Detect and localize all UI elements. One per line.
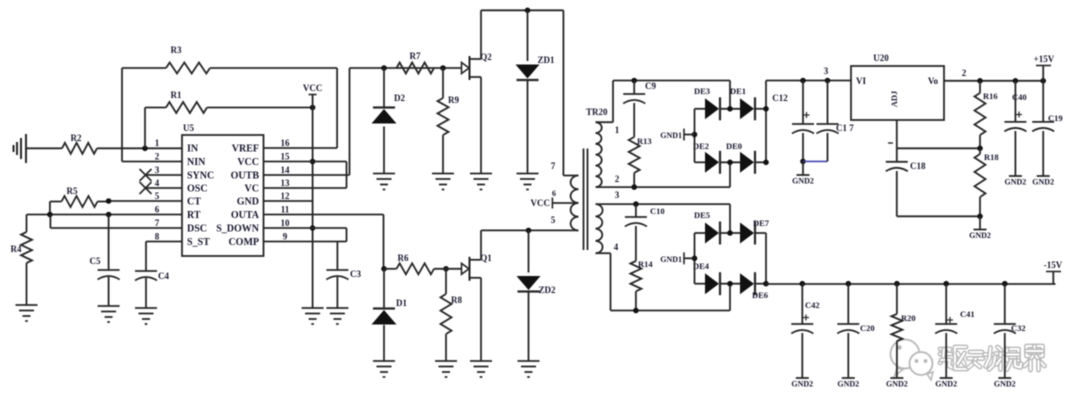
svg-text:DE1: DE1 bbox=[730, 86, 746, 96]
svg-text:8: 8 bbox=[155, 232, 160, 242]
svg-text:R4: R4 bbox=[11, 244, 22, 254]
capacitor C9 bbox=[623, 81, 656, 104]
transistor Q1 bbox=[462, 253, 493, 281]
svg-text:D1: D1 bbox=[396, 298, 407, 308]
resistor R8 bbox=[441, 269, 463, 361]
wire pin16 VREF bbox=[264, 147, 338, 149]
node junction rect out bottom bbox=[763, 160, 769, 166]
svg-text:4: 4 bbox=[155, 178, 160, 188]
svg-text:C42: C42 bbox=[805, 300, 820, 310]
resistor R13 bbox=[629, 103, 652, 187]
IC U5 PWM controller (SG3525) bbox=[155, 123, 290, 256]
svg-text:S_DOWN: S_DOWN bbox=[216, 223, 260, 234]
power symbol -15V bbox=[1044, 260, 1063, 284]
wire ground to R2 bbox=[26, 147, 62, 149]
svg-text:7: 7 bbox=[155, 218, 160, 228]
node junction DE3/DE1 bbox=[727, 106, 733, 112]
svg-text:R8: R8 bbox=[451, 295, 462, 305]
diode DE0 bbox=[726, 141, 755, 174]
capacitor C12 (electrolytic) bbox=[772, 81, 814, 162]
node junction GND1 tap top bbox=[692, 132, 698, 138]
svg-text:C12: C12 bbox=[772, 93, 788, 103]
svg-text:C5: C5 bbox=[90, 256, 101, 266]
node junction C10 top bbox=[633, 201, 639, 207]
ground under C5 bbox=[98, 306, 120, 322]
diode DE3 bbox=[694, 86, 720, 120]
capacitor C17 bbox=[817, 81, 855, 162]
wire pin12 GND stub bbox=[264, 200, 313, 202]
svg-text:DE5: DE5 bbox=[694, 210, 710, 220]
svg-text:Vo: Vo bbox=[928, 76, 939, 86]
node junction C17 / node 3 bbox=[824, 66, 831, 83]
wire VCC rail vertical bbox=[312, 95, 314, 309]
transformer pin6 VCC tap bbox=[531, 189, 575, 209]
wire -15V rail bbox=[766, 283, 1056, 285]
resistor R9 bbox=[438, 68, 460, 174]
wire OUTB rail to Q2 base bbox=[350, 67, 462, 69]
svg-text:ZD2: ZD2 bbox=[538, 285, 556, 295]
resistor R1 bbox=[145, 90, 313, 148]
wire C12-C17 bottom (blue) bbox=[803, 160, 828, 162]
svg-text:15: 15 bbox=[281, 152, 291, 162]
wire pin7 DSC bbox=[50, 215, 182, 229]
capacitor C3 bbox=[326, 269, 361, 308]
svg-text:DE6: DE6 bbox=[752, 290, 768, 300]
svg-text:ADJ: ADJ bbox=[889, 90, 899, 107]
svg-text:VCC: VCC bbox=[531, 198, 551, 208]
capacitor C20 bbox=[837, 284, 874, 378]
capacitor C41 (electrolytic) bbox=[935, 284, 974, 378]
svg-text:7: 7 bbox=[551, 161, 556, 171]
svg-text:DSC: DSC bbox=[187, 223, 207, 234]
ground under C4 bbox=[135, 308, 157, 324]
node junction C41 bbox=[943, 281, 949, 287]
svg-text:U20: U20 bbox=[873, 53, 889, 63]
node junction C40 bbox=[1013, 78, 1019, 84]
svg-text:12: 12 bbox=[281, 191, 291, 201]
node junction C20 bbox=[846, 281, 852, 287]
svg-text:R5: R5 bbox=[67, 186, 78, 196]
capacitor C18 bbox=[886, 143, 926, 216]
diode DE4 bbox=[693, 261, 720, 295]
ground tag GND2 under C19 bbox=[1032, 176, 1054, 187]
node junction pin10/ground rail bbox=[310, 225, 316, 231]
node junction R5/RT/DSC bbox=[47, 212, 53, 218]
resistor R14 bbox=[630, 226, 653, 311]
ground under C3 bbox=[326, 308, 348, 324]
svg-text:DE0: DE0 bbox=[726, 141, 742, 151]
resistor R7 bbox=[397, 51, 435, 74]
svg-text:Q1: Q1 bbox=[480, 253, 492, 263]
svg-text:R7: R7 bbox=[410, 51, 421, 61]
wire pin4 rail bbox=[596, 242, 731, 311]
svg-text:DE4: DE4 bbox=[693, 261, 710, 271]
capacitor C19 bbox=[1032, 81, 1062, 176]
wire rectifier left leg bbox=[694, 109, 696, 163]
wire pin11 OUTA bbox=[264, 215, 384, 269]
svg-text:R3: R3 bbox=[171, 45, 182, 55]
svg-text:ZD1: ZD1 bbox=[537, 55, 555, 65]
wire Q1 emitter bbox=[480, 278, 482, 361]
svg-text:R18: R18 bbox=[984, 152, 999, 162]
resistor R6 bbox=[397, 253, 435, 274]
resistor R3 with feedback loop pin16 to pin2 bbox=[122, 45, 337, 162]
diode DE2 bbox=[693, 141, 720, 174]
node junction R9/rail bbox=[440, 65, 446, 71]
node junction C42 bbox=[800, 281, 806, 287]
zener diode ZD1 bbox=[516, 10, 555, 173]
svg-text:TR20: TR20 bbox=[586, 107, 608, 117]
ground (sideways earth) at far left bbox=[14, 134, 27, 163]
wire pin1 to rectifier rail bbox=[596, 81, 731, 136]
node junction DE5/DE7 bbox=[727, 230, 733, 236]
svg-text:2: 2 bbox=[615, 174, 620, 184]
ground under ZD2 bbox=[518, 361, 540, 377]
resistor R4 bbox=[11, 215, 33, 306]
wire C3 riser bbox=[336, 242, 338, 271]
svg-text:GND2: GND2 bbox=[1005, 178, 1027, 187]
svg-text:C1 7: C1 7 bbox=[836, 123, 854, 133]
ground tag GND1 (top rectifier) bbox=[660, 129, 694, 141]
power symbol +15V bbox=[1034, 54, 1055, 81]
node junction rect out top bbox=[763, 106, 769, 112]
wire pin15 VCC stub bbox=[264, 161, 347, 163]
wire rail pin5 of transformer bbox=[481, 229, 579, 231]
watermark logo and text (decorative) bbox=[891, 340, 1045, 381]
svg-text:C40: C40 bbox=[1012, 92, 1027, 102]
wire pin9 COMP bbox=[264, 241, 347, 243]
transformer secondary winding top (pins 1-2) bbox=[596, 122, 602, 187]
svg-text:C20: C20 bbox=[860, 323, 875, 333]
ground under R9 bbox=[432, 174, 454, 190]
svg-text:1: 1 bbox=[615, 125, 620, 135]
wire bottom rectifier row1 bbox=[695, 232, 767, 234]
svg-text:C9: C9 bbox=[645, 81, 656, 91]
node junction R14 bottom bbox=[633, 308, 639, 314]
svg-text:GND2: GND2 bbox=[886, 380, 908, 389]
wire Q2 collector riser bbox=[480, 10, 482, 59]
node junction C32 bbox=[1002, 281, 1008, 287]
node junction VCC/pin15 bbox=[310, 159, 316, 165]
transformer secondary winding bottom (pins 3-4) bbox=[596, 204, 603, 253]
node junction D1/R6 bbox=[381, 266, 387, 272]
diode D1 bbox=[372, 269, 408, 361]
svg-text:U5: U5 bbox=[183, 123, 194, 133]
svg-text:VI: VI bbox=[856, 76, 866, 86]
svg-text:C4: C4 bbox=[158, 271, 169, 281]
resistor R20 bbox=[891, 284, 915, 378]
ground tag GND2 under C12 bbox=[792, 161, 814, 185]
svg-text:14: 14 bbox=[281, 165, 291, 175]
svg-text:OUTB: OUTB bbox=[231, 170, 260, 181]
node junction R1/VCC rail bbox=[310, 105, 316, 111]
ground tag GND2 under C40 bbox=[1005, 176, 1027, 187]
wire U20 ADJ bbox=[897, 120, 980, 148]
svg-text:IN: IN bbox=[187, 143, 199, 154]
svg-text:1: 1 bbox=[155, 138, 160, 148]
svg-text:3: 3 bbox=[615, 190, 620, 200]
diode DE7 bbox=[740, 218, 770, 245]
wire U20 output rail bbox=[944, 68, 1043, 81]
svg-text:R13: R13 bbox=[637, 136, 652, 146]
ground tag GND2 under C42 bbox=[791, 378, 813, 389]
wire pin7 from top rail bbox=[551, 10, 579, 175]
svg-text:C32: C32 bbox=[1011, 323, 1026, 333]
svg-text:C10: C10 bbox=[650, 206, 665, 216]
transistor Q2 bbox=[462, 52, 493, 80]
wire pin13 VC to VCC tie bbox=[264, 162, 347, 189]
svg-text:R20: R20 bbox=[901, 313, 916, 323]
ground tag GND1 (bottom rectifier) bbox=[660, 252, 694, 264]
svg-text:2: 2 bbox=[155, 152, 160, 162]
svg-text:16: 16 bbox=[281, 138, 291, 148]
svg-text:GND2: GND2 bbox=[791, 380, 813, 389]
node junction DE2/DE0 bbox=[727, 160, 733, 166]
svg-text:3: 3 bbox=[824, 66, 829, 76]
wire top rectifier row2 bbox=[695, 161, 767, 163]
ground under R4 bbox=[16, 305, 38, 321]
svg-text:GND2: GND2 bbox=[837, 380, 859, 389]
transformer TR20 core bbox=[584, 107, 609, 250]
wire pin10 S_DOWN bbox=[264, 228, 347, 242]
regulator U20 bbox=[851, 53, 944, 120]
svg-text:R2: R2 bbox=[71, 133, 82, 143]
svg-text:GND2: GND2 bbox=[792, 177, 814, 186]
wire pin8 S_ST to C4 bbox=[146, 242, 182, 272]
ground tag GND2 under C41 bbox=[935, 378, 957, 389]
ground tag GND2 under C32 bbox=[994, 378, 1016, 389]
wire R2 to IC pin 1 (IN) bbox=[97, 147, 182, 149]
svg-text:RT: RT bbox=[187, 210, 201, 221]
node junction R20 bbox=[894, 281, 900, 287]
wire pin6 RT bbox=[27, 214, 183, 216]
diode D2 bbox=[372, 68, 406, 174]
capacitor C40 (electrolytic) bbox=[1004, 81, 1026, 176]
node junction R13 bottom bbox=[631, 184, 637, 190]
svg-text:13: 13 bbox=[281, 178, 291, 188]
svg-text:3: 3 bbox=[155, 165, 160, 175]
ground tag GND2 under R18 bbox=[969, 216, 991, 240]
svg-text:VC: VC bbox=[245, 183, 259, 194]
wire rectifier right leg / output bbox=[766, 81, 851, 163]
transformer pin5 label bbox=[551, 215, 556, 225]
svg-text:C19: C19 bbox=[1048, 113, 1063, 123]
resistor R16 bbox=[975, 81, 998, 149]
svg-text:VREF: VREF bbox=[232, 143, 259, 154]
svg-text:SYNC: SYNC bbox=[187, 170, 214, 181]
svg-text:11: 11 bbox=[281, 205, 290, 215]
svg-text:COMP: COMP bbox=[228, 237, 259, 248]
svg-text:+15V: +15V bbox=[1034, 54, 1055, 64]
transformer primary winding (pins 7-6-5) bbox=[571, 176, 579, 231]
svg-text:10: 10 bbox=[281, 218, 291, 228]
svg-text:GND2: GND2 bbox=[994, 380, 1016, 389]
node junction R18/C18/gnd bbox=[977, 214, 983, 220]
node junction R8/R6 bbox=[443, 266, 449, 272]
ground under Q1 emitter bbox=[470, 361, 492, 377]
wire pin3 rail bbox=[596, 190, 731, 233]
svg-text:CT: CT bbox=[187, 196, 201, 207]
node junction ZD2/rail bbox=[526, 228, 532, 234]
ground under pin10 rail bbox=[302, 308, 324, 324]
wire top rectifier row1 bbox=[695, 108, 767, 110]
node junction R1/pin1 bbox=[142, 146, 148, 152]
no-connect X pin 3 (SYNC) bbox=[140, 169, 183, 181]
capacitor C5 bbox=[90, 215, 120, 307]
svg-text:R1: R1 bbox=[171, 90, 182, 100]
resistor R2 bbox=[62, 133, 97, 154]
svg-text:OSC: OSC bbox=[187, 183, 208, 194]
node junction C19 bbox=[1040, 78, 1046, 84]
wire Q2 emitter bbox=[480, 77, 482, 174]
svg-text:9: 9 bbox=[283, 232, 288, 242]
svg-text:-15V: -15V bbox=[1044, 260, 1063, 270]
svg-text:GND1: GND1 bbox=[660, 131, 682, 140]
node junction GND1 tap bottom bbox=[692, 255, 698, 261]
wire top rail bbox=[481, 9, 563, 11]
svg-text:DE3: DE3 bbox=[694, 86, 710, 96]
svg-text:GND2: GND2 bbox=[969, 231, 991, 240]
wire bottom rectifier left leg bbox=[694, 233, 696, 284]
ground under ZD1 bbox=[517, 174, 539, 190]
capacitor C42 (electrolytic) bbox=[791, 284, 819, 378]
ground under Q2 emitter bbox=[470, 174, 492, 190]
svg-text:S_ST: S_ST bbox=[187, 237, 210, 248]
node junction C12 bottom bbox=[800, 159, 806, 165]
wire bottom rectifier row2 bbox=[695, 283, 767, 285]
svg-text:OUTA: OUTA bbox=[231, 210, 260, 221]
svg-text:VCC: VCC bbox=[237, 157, 259, 168]
ground under D1 bbox=[373, 361, 395, 377]
node junction C9 top bbox=[631, 78, 637, 84]
wire bottom rectifier right leg bbox=[763, 233, 769, 287]
diode DE5 bbox=[694, 210, 720, 245]
svg-text:C41: C41 bbox=[960, 309, 975, 319]
capacitor C4 bbox=[135, 271, 169, 308]
svg-text:2: 2 bbox=[962, 68, 967, 78]
power symbol VCC bbox=[303, 83, 323, 95]
capacitor C10 bbox=[625, 204, 665, 226]
svg-text:DE7: DE7 bbox=[753, 218, 770, 228]
node junction C12 bbox=[800, 78, 806, 84]
wire Q1 collector riser bbox=[480, 230, 482, 259]
wire pin14 OUTB riser bbox=[264, 68, 350, 175]
node junction D2/rail bbox=[381, 65, 387, 71]
diode DE1 bbox=[730, 86, 755, 120]
svg-text:6: 6 bbox=[155, 205, 160, 215]
node junction RT/C5 rail bbox=[106, 212, 112, 218]
resistor R18 bbox=[975, 148, 999, 216]
svg-text:Q2: Q2 bbox=[480, 52, 492, 62]
svg-text:R9: R9 bbox=[448, 95, 459, 105]
diode DE6 bbox=[740, 272, 768, 300]
capacitor C32 bbox=[994, 284, 1026, 378]
svg-text:C18: C18 bbox=[910, 161, 926, 171]
svg-text:5: 5 bbox=[155, 191, 160, 201]
svg-text:R14: R14 bbox=[638, 259, 653, 269]
ground under D2 bbox=[373, 174, 395, 190]
ground tag GND2 under C20 bbox=[837, 378, 859, 389]
wire pin2 rail bbox=[596, 162, 731, 187]
no-connect X pin 4 (OSC) bbox=[140, 182, 183, 194]
svg-text:D2: D2 bbox=[394, 93, 405, 103]
svg-text:GND2: GND2 bbox=[935, 380, 957, 389]
svg-text:GND: GND bbox=[237, 196, 259, 207]
node junction R5/CT/C5 bbox=[106, 198, 112, 204]
node junction R16 bbox=[977, 78, 983, 84]
svg-text:R16: R16 bbox=[983, 91, 998, 101]
node junction DE4/DE6 bbox=[727, 281, 733, 287]
wire C18 bottom to R18 bottom bbox=[897, 215, 980, 217]
svg-text:GND2: GND2 bbox=[1032, 178, 1054, 187]
svg-text:6: 6 bbox=[552, 189, 556, 198]
svg-text:C3: C3 bbox=[350, 269, 361, 279]
ground under R8 bbox=[435, 361, 457, 377]
svg-text:4: 4 bbox=[614, 242, 619, 252]
ground tag GND2 under R20 bbox=[886, 378, 908, 389]
node junction ZD1/top rail bbox=[525, 8, 531, 14]
wire R6 to Q1 base bbox=[384, 268, 462, 270]
svg-text:5: 5 bbox=[551, 215, 556, 225]
node junction ADJ/R16/R18 bbox=[977, 146, 983, 152]
resistor R5 bbox=[50, 186, 109, 215]
svg-text:R6: R6 bbox=[398, 253, 409, 263]
svg-text:NIN: NIN bbox=[187, 157, 206, 168]
wire pin5 CT bbox=[109, 200, 182, 202]
svg-text:GND1: GND1 bbox=[660, 255, 682, 264]
svg-text:VCC: VCC bbox=[303, 83, 323, 93]
zener diode ZD2 bbox=[517, 230, 556, 361]
